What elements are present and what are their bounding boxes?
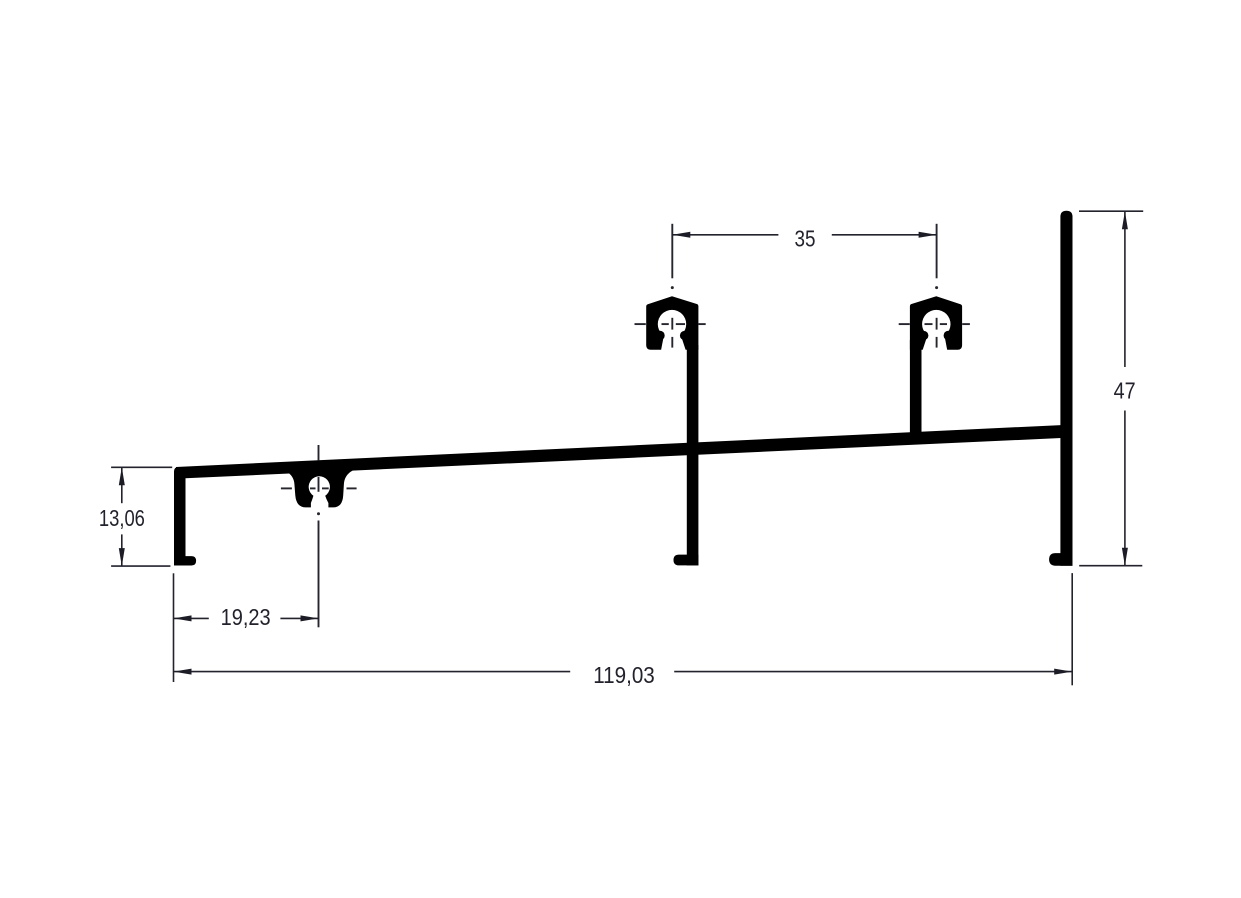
dim 35 arrow right bbox=[919, 232, 937, 238]
dim 19,23 arrow right bbox=[301, 615, 319, 621]
centerline hook3 vertical (extension for dim 19,23 right) bbox=[317, 445, 320, 627]
profile middle leg bbox=[687, 345, 699, 565]
profile left foot bbox=[174, 556, 196, 565]
dim 47 extension top bbox=[1079, 210, 1143, 212]
profile hook1 body (screw channel) bbox=[646, 296, 698, 349]
profile right foot bbox=[1049, 553, 1072, 566]
centerline hook3 horizontal bbox=[281, 487, 357, 489]
dim 119,03 line bbox=[174, 671, 1073, 673]
dim 19,23 arrow left bbox=[174, 615, 192, 621]
svg-text:19,23: 19,23 bbox=[221, 604, 271, 630]
hook2 left lobe bbox=[919, 331, 928, 340]
profile left leg bbox=[174, 467, 186, 566]
profile right vertical bar bbox=[1060, 211, 1072, 566]
dim 35 line bbox=[672, 234, 936, 236]
dim 119,03 arrow right bbox=[1054, 669, 1072, 675]
centerline hook1 horizontal bbox=[635, 323, 706, 325]
dim 13,06 extension bottom bbox=[111, 565, 170, 567]
centerline hook2 horizontal bbox=[899, 323, 970, 325]
dim 13,06 extension top bbox=[111, 466, 172, 468]
hook2 right lobe bbox=[944, 331, 953, 340]
dim 13,06 line bbox=[121, 467, 123, 566]
svg-text:47: 47 bbox=[1114, 378, 1136, 404]
dim 19,23 extension left (shared with 119,03) bbox=[173, 573, 175, 682]
dim 119,03 arrow left bbox=[174, 669, 192, 675]
centerline hook1 vertical (extension for dim 35, left) bbox=[671, 224, 674, 348]
hook1 slot opening bbox=[661, 330, 686, 351]
dim 47 extension bottom bbox=[1079, 565, 1142, 567]
svg-text:13,06: 13,06 bbox=[99, 505, 145, 531]
profile slanted top flange bbox=[176, 425, 1061, 478]
dim 119,03 extension right bbox=[1071, 573, 1073, 685]
hook1 right lobe bbox=[680, 331, 689, 340]
hook1 left lobe bbox=[655, 331, 664, 340]
dim 13,06 arrow top bbox=[119, 467, 125, 485]
svg-text:119,03: 119,03 bbox=[593, 662, 655, 688]
dim 47 line bbox=[1124, 211, 1126, 566]
dim 47 arrow top bbox=[1122, 211, 1128, 229]
dim 19,23 line bbox=[174, 617, 319, 619]
dim 47 arrow bottom bbox=[1122, 548, 1128, 566]
profile hook3 body (lower clip channel) bbox=[286, 468, 353, 508]
hook2 slot opening bbox=[922, 330, 947, 351]
svg-text:35: 35 bbox=[795, 225, 816, 251]
centerline hook2 vertical (extension for dim 35, right) bbox=[935, 224, 938, 348]
hook3 cavity (keyhole with slot opening) bbox=[309, 476, 330, 510]
dim 13,06 arrow bottom bbox=[119, 548, 125, 566]
hook1 cavity bbox=[658, 310, 686, 338]
profile hook2 body (screw channel, mirrored) bbox=[910, 296, 962, 349]
profile middle foot bbox=[674, 555, 699, 566]
hook2 cavity bbox=[922, 310, 950, 338]
profile hook2 leg bbox=[910, 340, 922, 435]
dim 35 arrow left bbox=[672, 232, 690, 238]
